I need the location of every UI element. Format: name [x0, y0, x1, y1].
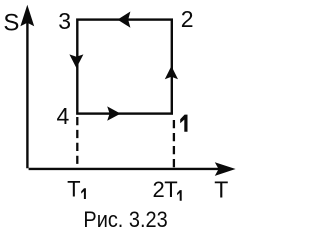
svg-text:T: T	[67, 177, 80, 202]
state point label 1	[180, 115, 187, 132]
svg-text:2: 2	[181, 6, 194, 32]
S axis	[20, 5, 34, 168]
cycle rectangle	[77, 20, 172, 114]
arrow on top edge (2 to 3, pointing left)	[118, 12, 131, 28]
dashed line from point 1 down to 2T1 tick	[173, 120, 175, 168]
svg-text:T: T	[214, 177, 228, 203]
T axis	[29, 162, 236, 176]
svg-text:Рис. 3.23: Рис. 3.23	[83, 207, 167, 232]
svg-text:3: 3	[58, 8, 71, 34]
subscript 1 of 2T1	[177, 190, 182, 201]
dashed line from point 4 down to T1 tick	[76, 117, 78, 169]
arrow on right edge (1 to 2, pointing up)	[165, 66, 178, 79]
svg-text:2T: 2T	[153, 177, 178, 202]
subscript 1 of T1	[81, 188, 86, 199]
arrow on left edge (3 to 4, pointing down)	[69, 54, 83, 68]
arrow on bottom edge (4 to 1, pointing right)	[107, 106, 120, 120]
svg-text:4: 4	[57, 103, 70, 129]
svg-text:S: S	[3, 10, 19, 37]
